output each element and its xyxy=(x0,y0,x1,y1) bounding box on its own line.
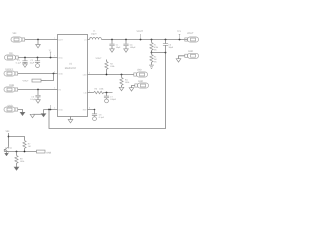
test point TP1 xyxy=(179,39,181,41)
wire row5 xyxy=(18,110,23,112)
svg-text:LBO: LBO xyxy=(137,68,142,71)
svg-text:VOUT: VOUT xyxy=(137,30,144,33)
ground below U1 xyxy=(68,120,73,123)
svg-text:0.1µF: 0.1µF xyxy=(30,98,36,101)
wire LBO rail xyxy=(94,74,134,76)
test point TP2 on row2 xyxy=(50,57,52,59)
wire row1 xyxy=(25,39,53,41)
resistor R8 xyxy=(16,152,18,156)
node R1 xyxy=(151,39,153,41)
ground under C7 xyxy=(105,98,109,103)
svg-text:LBO: LBO xyxy=(83,74,87,77)
ground open tie xyxy=(30,114,35,117)
wire branch to R6 xyxy=(46,74,54,81)
svg-text:0.1µF: 0.1µF xyxy=(16,61,22,64)
svg-text:VOUT: VOUT xyxy=(96,57,103,60)
wire ground tie xyxy=(33,113,42,115)
svg-text:VIN: VIN xyxy=(13,32,17,35)
svg-text:VOUT: VOUT xyxy=(23,80,30,83)
node C6 xyxy=(37,89,39,91)
resistor R3 xyxy=(106,60,108,62)
feedback loop wire xyxy=(49,53,166,129)
svg-text:100k: 100k xyxy=(20,160,24,163)
node branch row3 xyxy=(53,73,55,75)
ground under Q1 xyxy=(6,152,8,154)
svg-text:1M: 1M xyxy=(28,145,31,148)
capacitor C1 xyxy=(111,40,113,44)
svg-text:ONB: ONB xyxy=(46,151,51,154)
wire base row xyxy=(4,151,36,153)
node FB left xyxy=(48,109,50,111)
node R4 xyxy=(121,74,123,76)
svg-text:100µF: 100µF xyxy=(130,46,136,49)
resistor R2 xyxy=(151,53,153,55)
ground flag row1 xyxy=(37,40,39,45)
svg-text:10µH: 10µH xyxy=(91,33,97,36)
svg-text:1%: 1% xyxy=(154,61,157,64)
node row1 xyxy=(37,39,39,41)
svg-text:ONB: ONB xyxy=(9,84,14,87)
resistor R9 xyxy=(37,150,46,153)
ground under R8 xyxy=(16,164,18,166)
ground stub x43 xyxy=(43,110,45,113)
svg-text:100pF: 100pF xyxy=(110,98,116,101)
ground under R2 xyxy=(149,65,154,68)
U1 left pin stubs xyxy=(44,40,58,110)
resistor R7 xyxy=(23,141,26,149)
capacitor C4 xyxy=(125,40,127,44)
capacitor C8 xyxy=(94,110,96,114)
node C2 xyxy=(37,57,39,59)
ground at J5 xyxy=(20,111,24,115)
wire to R7 xyxy=(9,137,25,141)
svg-text:MAX1797: MAX1797 xyxy=(65,67,77,70)
ground right xyxy=(176,59,181,62)
svg-text:0.1µF: 0.1µF xyxy=(99,116,105,119)
svg-text:1%: 1% xyxy=(154,48,157,51)
svg-text:GND: GND xyxy=(59,109,64,112)
resistor R6 xyxy=(32,79,41,82)
U1 GND pin stub bottom xyxy=(70,117,72,120)
ground under R4 xyxy=(119,87,124,90)
ground under C4 xyxy=(125,46,127,49)
svg-text:VOUT: VOUT xyxy=(187,32,194,35)
svg-text:100k: 100k xyxy=(110,65,114,68)
ground under C1 xyxy=(111,46,113,49)
U1 right pin stubs xyxy=(88,40,95,110)
svg-text:ON/OFF: ON/OFF xyxy=(5,68,14,71)
capacitor C6 xyxy=(37,90,39,96)
capacitor C5 xyxy=(165,40,167,44)
node C3 xyxy=(24,57,26,59)
ground under C2 xyxy=(36,62,40,67)
wire VOUT rail xyxy=(102,39,188,41)
svg-text:LBI: LBI xyxy=(84,92,87,95)
resistor R1 xyxy=(151,40,153,43)
wire GND right xyxy=(179,56,185,59)
ground under C8 xyxy=(93,116,97,121)
svg-text:10µF: 10µF xyxy=(116,46,121,49)
wire GND mid xyxy=(132,86,135,88)
wire row4 xyxy=(18,89,53,91)
node C7 xyxy=(106,92,108,94)
wire row3 xyxy=(18,73,53,75)
svg-text:GND: GND xyxy=(138,80,143,83)
IC U1 MAX1797 body xyxy=(58,35,88,117)
svg-text:VIN: VIN xyxy=(6,130,10,133)
svg-text:ON: ON xyxy=(9,52,13,55)
node C4 xyxy=(125,39,127,41)
ground mid xyxy=(129,88,134,91)
node C5 xyxy=(165,39,167,41)
node C1 xyxy=(111,39,113,41)
svg-text:39pF: 39pF xyxy=(169,46,174,49)
resistor R4 xyxy=(121,75,123,78)
svg-text:100k: 100k xyxy=(125,81,129,84)
capacitor C7 xyxy=(106,93,108,96)
wire row2 xyxy=(18,57,52,59)
node FB divider xyxy=(151,52,153,54)
capacitor C3 xyxy=(24,58,26,61)
wire FB node xyxy=(152,52,166,54)
ground under C6 xyxy=(37,97,39,100)
capacitor C2 xyxy=(37,58,39,61)
svg-text:GND: GND xyxy=(188,50,193,53)
node C8 xyxy=(94,109,96,111)
ground under C3 xyxy=(24,62,26,64)
svg-text:100k: 100k xyxy=(99,88,103,91)
svg-text:10µF: 10µF xyxy=(30,61,35,64)
test point row5 xyxy=(50,109,52,111)
